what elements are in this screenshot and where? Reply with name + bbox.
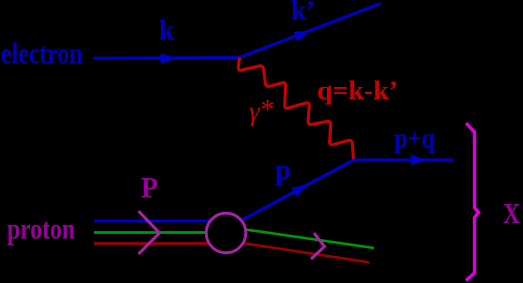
svg-text:proton: proton xyxy=(7,213,75,246)
svg-text:k: k xyxy=(159,15,174,45)
svg-text:p: p xyxy=(275,155,291,186)
arrow on electron line xyxy=(161,53,177,63)
svg-text:p+q: p+q xyxy=(394,124,435,155)
electron incoming line k xyxy=(93,56,240,60)
quark line p from proton blob xyxy=(242,160,354,220)
proton incoming blue line xyxy=(94,220,226,223)
remnant green line xyxy=(235,228,374,248)
proton blob circle xyxy=(206,213,246,253)
svg-text:electron: electron xyxy=(1,37,83,70)
struck quark line p+q xyxy=(354,159,454,162)
svg-text:γ: γ xyxy=(249,96,261,126)
chevron on remnant lines xyxy=(311,233,325,259)
arrow on p+q line xyxy=(411,155,427,165)
svg-text:*: * xyxy=(261,95,275,126)
svg-text:X: X xyxy=(503,199,520,230)
scattered electron line k' xyxy=(240,4,381,58)
proton incoming green line xyxy=(94,231,226,234)
photon wavy line gamma* xyxy=(238,58,353,160)
svg-text:P: P xyxy=(141,173,158,204)
remnant red line xyxy=(232,242,369,263)
momentum chevron P on proton lines xyxy=(139,211,160,254)
svg-text:k’: k’ xyxy=(291,0,315,25)
proton incoming red line xyxy=(94,242,226,245)
arrow on p line xyxy=(291,185,308,197)
arrow on k' line xyxy=(294,31,311,42)
brace X xyxy=(466,123,479,281)
svg-text:q=k-k’: q=k-k’ xyxy=(317,75,398,105)
